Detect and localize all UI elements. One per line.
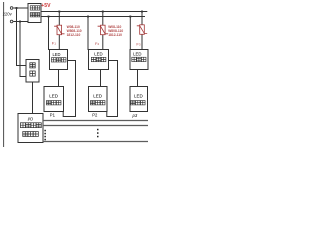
fuse part numbers 1	[67, 25, 82, 37]
rail2 drop to driver3 top-left	[129, 17, 131, 51]
svg-text:LED: LED	[134, 93, 144, 98]
junction rail2 drop2	[87, 16, 89, 18]
left frame line	[3, 2, 5, 147]
svg-text:P1: P1	[50, 112, 56, 117]
LED driver board 1	[50, 50, 68, 70]
wire driver3 to display3	[137, 70, 139, 87]
cable driver2 right side to display2	[107, 61, 118, 117]
rail2 drop to driver1 top-left	[48, 17, 50, 51]
junction rail1 F2	[102, 11, 104, 13]
switching power supply box 开关电源	[28, 4, 41, 23]
LED display P3	[130, 87, 148, 112]
junction rail2 drop3	[129, 16, 131, 18]
svg-text:LED: LED	[53, 52, 61, 57]
junction rail1 F1	[58, 11, 60, 13]
LED display P1	[44, 87, 64, 112]
fuse F3	[137, 25, 147, 35]
junction rail2 drop1	[48, 16, 50, 18]
LED driver board 3	[130, 50, 148, 70]
bus line 2	[43, 125, 148, 127]
+5V rail	[41, 11, 147, 13]
wire driver2 to display2	[100, 70, 102, 87]
svg-text:1812-110: 1812-110	[67, 33, 81, 37]
wire driver1 to display1	[58, 70, 60, 87]
ellipsis dots mid bus	[97, 129, 99, 138]
svg-text:F1: F1	[52, 41, 56, 46]
terminal circle top (220V L)	[10, 7, 13, 10]
junction on L wire	[16, 7, 18, 9]
rail2 drop to driver2 top-left	[87, 17, 89, 51]
fuse F3 wire	[141, 12, 143, 26]
svg-text:+5V: +5V	[41, 3, 51, 9]
svg-text:p3: p3	[132, 113, 138, 118]
bus line 1	[43, 120, 148, 122]
wire N to power supply	[13, 21, 28, 23]
svg-text:LED: LED	[133, 52, 141, 57]
computer box 电脑	[26, 60, 39, 83]
junction rail1 F3	[141, 11, 143, 13]
wire L down to computer	[17, 8, 27, 66]
fuse F2 wire	[102, 12, 104, 26]
cable driver1 right side to display1	[63, 61, 75, 117]
GND rail	[41, 16, 145, 18]
svg-text:LED: LED	[93, 93, 103, 98]
fuse F1 wire	[58, 12, 60, 26]
terminal circle bottom (220V N)	[10, 20, 13, 23]
wire N down to computer	[20, 22, 26, 77]
svg-text:P2: P2	[92, 112, 98, 117]
fuse F1	[54, 25, 64, 35]
svg-text:LED: LED	[94, 52, 102, 57]
svg-text:LED: LED	[49, 93, 59, 98]
svg-text:F3: F3	[136, 42, 140, 47]
svg-text:220v: 220v	[3, 12, 13, 17]
wire L to power supply	[13, 7, 28, 9]
wire computer to IO board	[32, 82, 34, 114]
I/O signal distribution control board	[18, 114, 43, 143]
junction on N wire	[19, 21, 21, 23]
fuse F2	[98, 25, 108, 35]
LED driver board 2	[89, 50, 109, 70]
ellipsis dots near IO board	[44, 130, 46, 141]
bus line 3	[43, 141, 148, 143]
LED display P2	[89, 87, 108, 112]
svg-text:I/O: I/O	[28, 116, 34, 121]
svg-text:1812-110: 1812-110	[108, 33, 122, 37]
svg-text:F2: F2	[95, 41, 99, 46]
fuse part numbers 2	[108, 25, 123, 37]
